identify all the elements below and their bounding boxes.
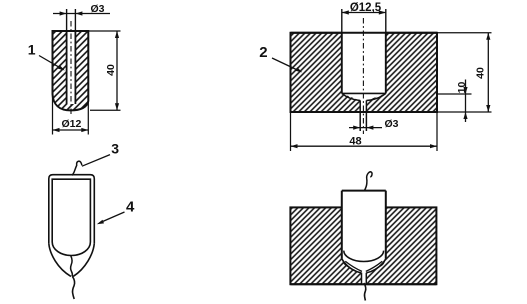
ampoule inner wall <box>52 179 90 255</box>
svg-text:10: 10 <box>456 82 468 94</box>
svg-text:Ø12,5: Ø12,5 <box>350 2 382 14</box>
svg-text:Ø3: Ø3 <box>385 118 399 130</box>
svg-text:Ø3: Ø3 <box>91 3 105 15</box>
centerline fig1 <box>70 21 72 116</box>
top seal squiggle (fig4) <box>364 172 372 191</box>
dimension Ø3 (fig2) <box>349 118 399 130</box>
mould block (hatched section) <box>291 28 438 112</box>
dimension 40 (fig2) <box>437 33 492 112</box>
glass taper curves (fig4) <box>345 261 382 271</box>
glass neck squiggle (fig3 bottom) <box>71 256 73 276</box>
bore channel walls (Ø3) <box>67 9 76 104</box>
hole bottom line <box>342 92 386 94</box>
dimension Ø12 (fig1) <box>53 93 89 135</box>
dimension 48 (fig2) <box>291 113 438 151</box>
dimension 10 (fig2) <box>437 80 472 123</box>
svg-text:Ø12: Ø12 <box>62 118 82 130</box>
svg-text:40: 40 <box>474 67 486 79</box>
mould block (hatched) fig4 <box>290 191 436 285</box>
crucible top edge line <box>53 30 89 32</box>
label 4 <box>97 198 135 224</box>
label 2 <box>259 44 302 72</box>
centerline fig2 <box>362 18 364 134</box>
dimension Ø3 (fig1) <box>53 3 110 15</box>
svg-text:3: 3 <box>111 140 119 156</box>
svg-text:2: 2 <box>259 44 267 61</box>
svg-text:48: 48 <box>349 135 361 147</box>
ampoule outer taper right <box>73 243 94 276</box>
block bottom line <box>291 111 438 113</box>
block top edge line <box>291 32 438 34</box>
ampoule outer taper left <box>49 243 71 276</box>
molten wedge right <box>371 258 386 270</box>
sealed tip tail (fig3) <box>72 276 74 299</box>
ampoule walls in mould <box>342 191 386 259</box>
channel walls (fig4) <box>362 273 367 284</box>
bore hole walls (Ø12,5) <box>342 9 386 93</box>
funnel taper <box>342 93 386 100</box>
dimension Ø12,5 <box>342 2 386 14</box>
crucible body (hatched section) <box>53 30 89 111</box>
dimension 40 (fig1) <box>88 31 120 110</box>
tail squiggle below (fig4) <box>364 283 366 301</box>
channel walls Ø3 (fig2) <box>360 100 366 131</box>
svg-text:40: 40 <box>105 64 117 76</box>
molten wedge left <box>342 258 357 270</box>
svg-text:4: 4 <box>126 198 135 215</box>
label 1 <box>28 41 65 70</box>
ampoule inner bottom arc (fig4) <box>344 251 384 262</box>
ampoule outer wall <box>49 175 95 244</box>
funnel wall curves (fig4) <box>342 259 386 273</box>
block bottom line fig4 <box>290 283 436 285</box>
label 3 <box>82 140 119 166</box>
top seal squiggle (fig3) <box>72 161 82 175</box>
svg-text:1: 1 <box>28 41 36 57</box>
